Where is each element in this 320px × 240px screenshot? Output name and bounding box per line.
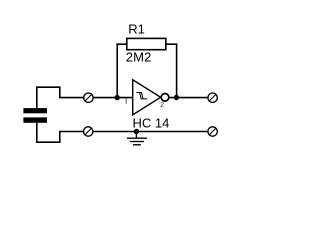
svg-text:HC 14: HC 14 [133, 116, 170, 131]
svg-text:2M2: 2M2 [126, 50, 152, 65]
svg-text:2: 2 [160, 102, 164, 109]
svg-text:R1: R1 [128, 21, 145, 36]
